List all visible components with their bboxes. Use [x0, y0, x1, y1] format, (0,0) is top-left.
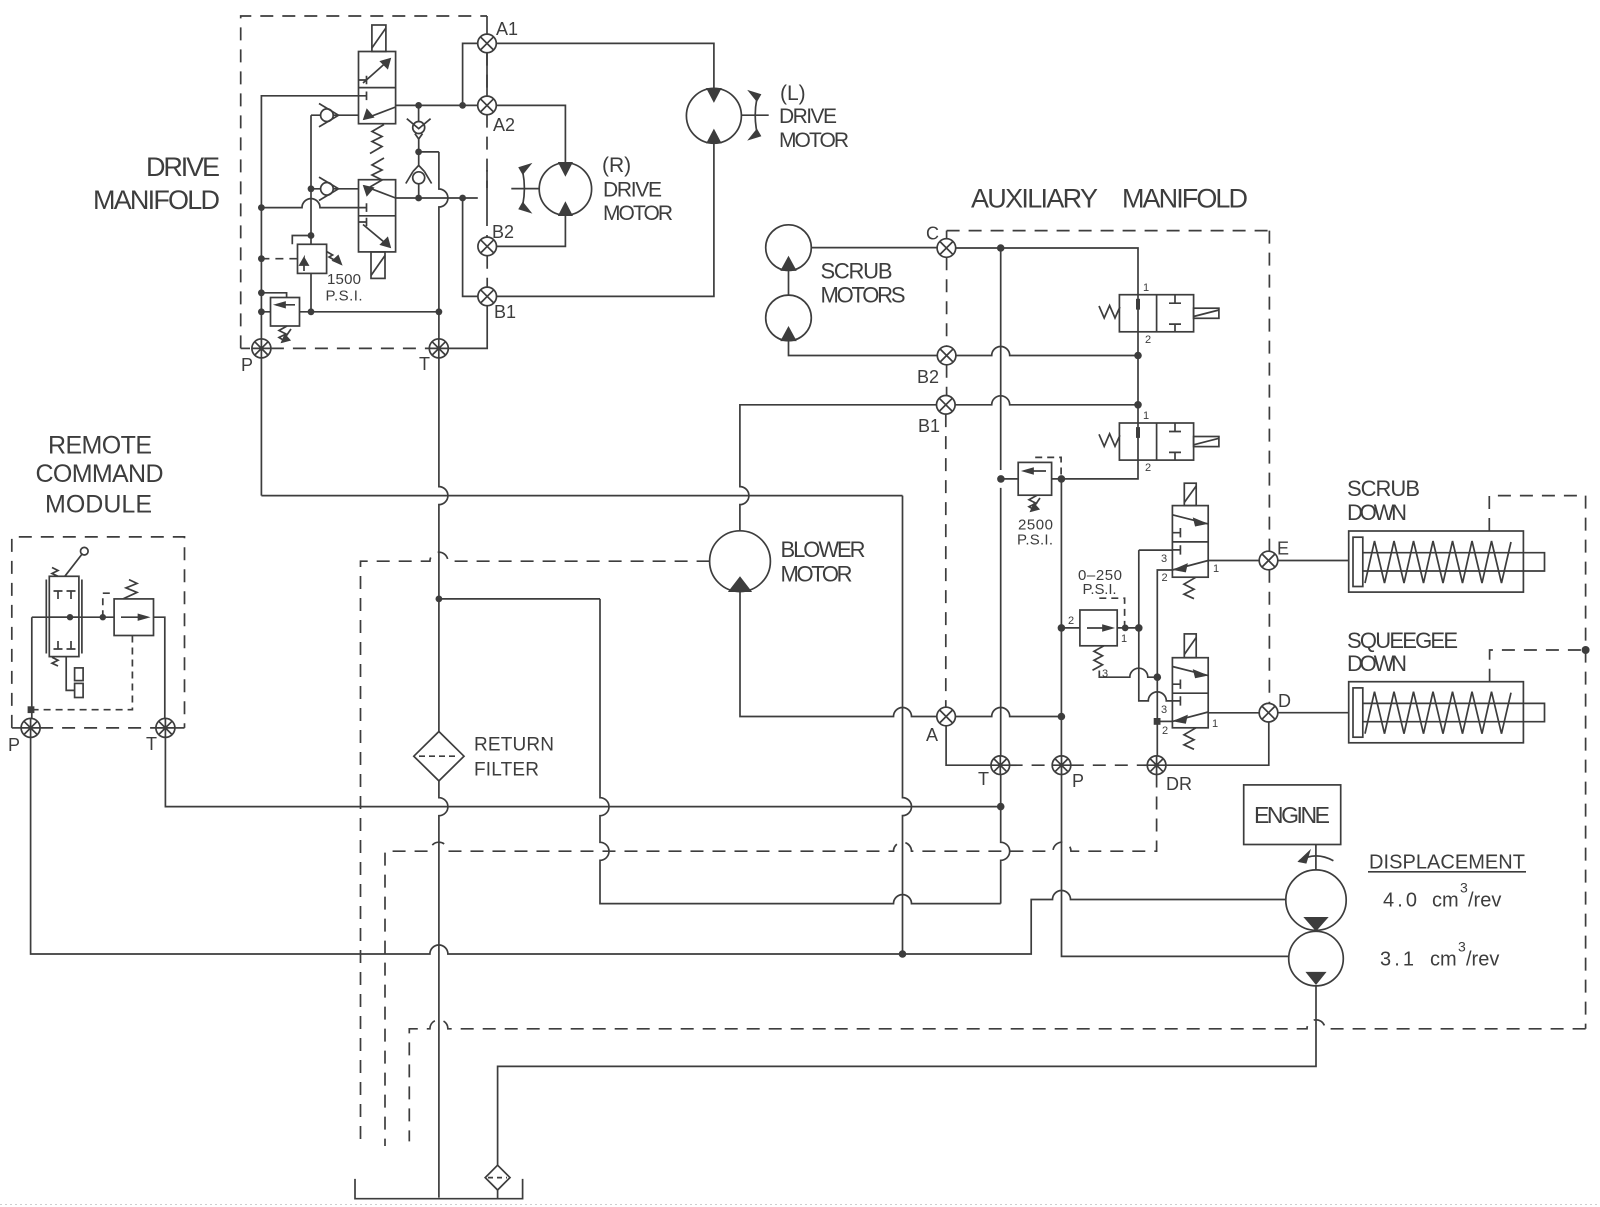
svg-text:MOTOR: MOTOR	[779, 129, 849, 152]
port T aux	[991, 756, 1010, 775]
solenoid tab SV1	[1194, 308, 1219, 318]
remote module dashed enclosure	[12, 537, 185, 728]
relief valve 2500 psi	[1018, 462, 1051, 495]
remote relief pilot dashed	[103, 593, 114, 617]
node B2 port	[478, 170, 497, 256]
wire unloader line	[261, 311, 439, 313]
svg-text:1500: 1500	[327, 271, 361, 288]
svg-text:cm: cm	[1430, 949, 1457, 971]
remote relief vent dashed	[31, 636, 132, 710]
port T drive	[429, 339, 448, 358]
blower motor	[710, 531, 771, 592]
svg-text:1: 1	[1143, 410, 1149, 422]
svg-text:FILTER: FILTER	[474, 760, 539, 781]
svg-text:REMOTE: REMOTE	[48, 432, 152, 460]
solenoid valve SV2 aux (2-way bottom)	[1119, 423, 1193, 460]
wire CV link to T drop	[419, 151, 439, 153]
label 1500 psi	[326, 271, 363, 305]
junction dot CV2 inlet	[308, 185, 315, 192]
wire DR to D corner	[1166, 722, 1269, 765]
junction dot 2500 right	[1058, 475, 1066, 483]
wire B1 to blower	[740, 405, 937, 531]
solenoid tab V2	[371, 252, 385, 279]
wire D valve out to D port	[1208, 712, 1259, 714]
squeegee cylinder vent dashed	[1490, 650, 1586, 682]
drive manifold label	[93, 152, 220, 215]
scrub down cylinder	[1349, 531, 1545, 592]
junction dot B2 at valve gallery	[1134, 352, 1142, 360]
svg-text:3.1: 3.1	[1380, 949, 1414, 971]
port D aux	[1259, 703, 1278, 722]
pilot dashed to relief	[261, 258, 297, 260]
wire aux T drop	[1001, 775, 1010, 904]
junction square dot D drain	[1154, 718, 1161, 725]
scrub motor bottom	[766, 295, 812, 341]
pressure reducing valve 0-250	[1080, 610, 1117, 646]
svg-text:P.S.I.: P.S.I.	[326, 288, 363, 305]
motor L drive	[686, 88, 741, 143]
svg-text:3: 3	[1102, 668, 1108, 680]
dashed vent line bottom	[409, 1020, 1585, 1142]
wire return filter down to tank	[439, 781, 448, 1198]
squeegee down cylinder	[1349, 682, 1545, 743]
node A1 port	[478, 16, 497, 53]
svg-text:AUXILIARY: AUXILIARY	[971, 184, 1098, 214]
svg-text:P: P	[1072, 771, 1084, 791]
svg-text:3: 3	[1161, 553, 1167, 565]
svg-text:DISPLACEMENT: DISPLACEMENT	[1369, 852, 1525, 874]
wire remote T line east	[165, 737, 1000, 806]
svg-text:COMMAND: COMMAND	[36, 460, 164, 488]
solenoid tab SV2	[1194, 437, 1219, 447]
wire x902 drop	[903, 496, 912, 954]
wire E port to scrub cylinder	[1278, 560, 1349, 562]
svg-text:C: C	[926, 224, 939, 244]
wire E port3	[1139, 549, 1173, 551]
wire T-return branch east	[439, 599, 1001, 904]
svg-text:MANIFOLD: MANIFOLD	[93, 185, 220, 215]
svg-text:T: T	[978, 769, 989, 789]
pump 1	[1286, 870, 1346, 930]
engine rotation arrow	[1299, 852, 1333, 863]
svg-text:BLOWER: BLOWER	[781, 537, 866, 562]
motor R drive	[539, 163, 591, 215]
check valve CV4 vertical	[406, 152, 432, 198]
solenoid valve SV1 aux (2-way top)	[1119, 295, 1193, 332]
svg-text:3: 3	[1458, 939, 1466, 955]
svg-text:E: E	[1277, 539, 1289, 559]
drive manifold dashed enclosure	[241, 16, 488, 348]
unloader spring below	[279, 326, 287, 341]
wire B2 to R motor	[497, 215, 566, 246]
scrub motor top	[766, 225, 812, 271]
relief 2500 output	[1001, 478, 1018, 480]
wire P to valve2 left port with hop	[261, 199, 358, 208]
suction strainer diamond	[485, 1165, 510, 1199]
svg-text:A2: A2	[493, 115, 515, 135]
svg-text:2: 2	[1068, 615, 1074, 627]
label 3.1 cm3/rev	[1380, 939, 1499, 971]
svg-text:B1: B1	[494, 302, 516, 322]
junction dots on B line	[415, 195, 466, 202]
svg-text:2: 2	[1145, 334, 1151, 346]
solenoid tab V1	[372, 25, 386, 52]
svg-text:P.S.I.: P.S.I.	[1083, 581, 1117, 598]
wire scrub motors link	[788, 270, 790, 295]
wire pump2 suction	[498, 986, 1316, 1165]
port E aux	[1259, 551, 1278, 570]
port T remote	[156, 718, 175, 737]
auxiliary manifold label	[971, 184, 1248, 214]
svg-text:DOWN: DOWN	[1347, 651, 1407, 676]
wire P riser	[261, 96, 358, 339]
wire scrub bottom to B2	[789, 341, 938, 356]
svg-text:MANIFOLD: MANIFOLD	[1122, 184, 1248, 214]
unloader valve drive	[261, 293, 299, 326]
svg-text:4.0: 4.0	[1383, 890, 1417, 912]
return filter diamond	[414, 732, 464, 781]
junction dots unloader line	[308, 308, 443, 315]
node A2 port	[478, 53, 497, 115]
remote command module label	[36, 432, 164, 519]
wire relief output	[310, 273, 312, 311]
svg-text:2: 2	[1162, 572, 1168, 584]
svg-text:2: 2	[1145, 462, 1151, 474]
svg-text:B1: B1	[918, 416, 940, 436]
label RETURN FILTER	[474, 735, 554, 781]
junction dot reducer output	[1135, 624, 1143, 632]
svg-text:A: A	[926, 725, 938, 745]
port P drive	[252, 339, 271, 358]
svg-text:(L): (L)	[780, 82, 806, 105]
node B1 port	[478, 287, 497, 306]
svg-text:B2: B2	[917, 367, 939, 387]
label SCRUB MOTORS	[821, 259, 906, 308]
port B1 aux	[937, 396, 956, 415]
svg-text:DRIVE: DRIVE	[603, 179, 662, 202]
svg-text:cm: cm	[1432, 890, 1459, 912]
svg-text:SQUEEGEE: SQUEEGEE	[1347, 628, 1458, 653]
svg-text:RETURN: RETURN	[474, 735, 554, 756]
label (R) DRIVE MOTOR	[602, 154, 673, 225]
scrub cylinder vent dashed	[1489, 496, 1585, 531]
pin labels reducer	[1068, 615, 1127, 680]
wire E valve out to E port	[1208, 560, 1259, 562]
spring E valve below	[1184, 577, 1196, 599]
junction dots on gallery	[67, 614, 106, 620]
dashed vent bus right	[1585, 496, 1587, 1029]
spring V2 above	[370, 158, 384, 187]
reducer drain to DR gallery	[1099, 668, 1157, 677]
faint page edge dotted line	[0, 1204, 1600, 1206]
junction dot relief tab	[308, 232, 315, 239]
remote relief valve	[114, 580, 153, 636]
label 0-250 psi	[1078, 567, 1122, 598]
solenoid valve E (3-way)	[1172, 506, 1208, 578]
dashed DR drain line	[385, 775, 1157, 1147]
wire scrub top to C	[811, 247, 937, 249]
dashed blower drain line	[361, 552, 710, 1146]
junction square dot vent	[28, 706, 35, 713]
svg-text:MOTORS: MOTORS	[821, 283, 906, 308]
svg-text:T: T	[419, 354, 430, 374]
joystick drain boxes	[66, 657, 83, 698]
pins E valve	[1161, 553, 1219, 584]
wire A into manifold	[955, 708, 1061, 717]
svg-text:DOWN: DOWN	[1347, 500, 1407, 525]
svg-text:DRIVE: DRIVE	[146, 152, 220, 182]
motor R shaft and rotation arrows	[511, 165, 539, 213]
svg-text:(R): (R)	[602, 154, 631, 177]
wire B2 into manifold	[956, 347, 1138, 356]
svg-text:1: 1	[1143, 282, 1149, 294]
svg-text:P.S.I.: P.S.I.	[1017, 532, 1053, 549]
spring D valve below	[1184, 728, 1196, 750]
svg-text:2: 2	[1162, 725, 1168, 737]
svg-text:DRIVE: DRIVE	[779, 105, 837, 128]
label SQUEEGEE DOWN	[1347, 628, 1458, 676]
wire D valve drain port2	[1157, 720, 1172, 722]
svg-text:3: 3	[1460, 880, 1468, 896]
wire D port to squeegee cylinder	[1278, 712, 1349, 714]
svg-text:DR: DR	[1166, 774, 1192, 794]
engine shaft	[1315, 845, 1317, 870]
tank	[355, 1179, 523, 1199]
junction dot remote P at x902	[899, 950, 907, 958]
wire reducer output	[1117, 627, 1139, 629]
wire E valve drain	[1157, 570, 1172, 677]
svg-text:3: 3	[1161, 704, 1167, 716]
wire reducer input	[1061, 627, 1080, 629]
wire C into manifold	[956, 248, 1138, 295]
wire A1 branch	[463, 43, 478, 105]
svg-text:1: 1	[1213, 563, 1219, 575]
pins D valve	[1161, 704, 1218, 737]
wire B1 branch	[463, 198, 478, 296]
wire return T-drive down to filter	[439, 358, 448, 732]
svg-text:ENGINE: ENGINE	[1254, 802, 1330, 828]
wire regulated gallery E3-D3	[1139, 550, 1173, 701]
svg-text:1: 1	[1121, 633, 1127, 645]
spring SV2	[1099, 434, 1120, 447]
svg-text:P: P	[8, 735, 20, 755]
svg-text:SCRUB: SCRUB	[1347, 476, 1420, 501]
junction dot A at P gallery	[1058, 713, 1066, 721]
wire A2 to R motor	[496, 105, 565, 162]
solenoid valve V1 drive (top)	[359, 52, 396, 124]
junction dot reducer input	[1058, 624, 1066, 632]
label (L) DRIVE MOTOR	[779, 82, 849, 152]
svg-text:MOTOR: MOTOR	[781, 562, 853, 587]
solenoid tab D valve	[1184, 634, 1196, 658]
wire gallery to P riser	[31, 617, 33, 718]
wire remote P line east	[31, 737, 1286, 954]
pins SV2	[1143, 410, 1151, 474]
spring V1 below	[370, 125, 384, 154]
svg-text:SCRUB: SCRUB	[821, 259, 893, 284]
wire blower to A	[740, 592, 937, 717]
wire valve2 output to B lines	[396, 197, 478, 199]
svg-text:P: P	[241, 355, 253, 375]
port A aux	[937, 707, 956, 726]
wire B1 to L motor	[497, 143, 714, 296]
wire relief out to T riser	[154, 617, 165, 718]
motor L shaft and rotation arrows	[741, 92, 768, 140]
wire CV riser left	[310, 115, 312, 244]
engine box	[1244, 785, 1341, 845]
relief 2500 spring arrow	[1029, 495, 1040, 511]
junction dot return at 598.9	[436, 596, 443, 603]
wire valve1 output to A2	[396, 104, 478, 106]
svg-text:D: D	[1278, 691, 1291, 711]
junction dot CV link	[415, 149, 422, 156]
wire aux long vertical T gallery	[1000, 248, 1002, 756]
solenoid valve V2 drive (bottom)	[359, 180, 396, 252]
junction dot relief out	[997, 475, 1005, 483]
label SCRUB DOWN	[1347, 476, 1420, 525]
svg-text:MODULE: MODULE	[45, 491, 152, 519]
svg-text:MOTOR: MOTOR	[603, 202, 673, 225]
check valve CV3 vertical	[407, 105, 431, 151]
remote module main gallery	[32, 616, 114, 618]
junction dot aux-T remote-T	[997, 803, 1005, 811]
port P aux	[1052, 756, 1071, 775]
wire T port drop into manifold	[438, 312, 440, 339]
junction dots on A2 line	[415, 102, 466, 109]
label BLOWER MOTOR	[781, 537, 866, 587]
wire valve gallery between SV1 SV2	[1137, 332, 1139, 423]
wire B1 into manifold	[955, 396, 1138, 405]
wire A to T external	[946, 726, 991, 765]
reducer pilot dashed	[1099, 598, 1124, 628]
svg-text:/rev: /rev	[1468, 890, 1501, 912]
svg-text:1: 1	[1212, 718, 1218, 730]
port P remote	[21, 718, 40, 737]
wire pressure cross line P-drive to east	[261, 495, 902, 497]
junction dots on P riser	[258, 204, 265, 315]
spring SV1	[1099, 306, 1120, 319]
joystick pilot valve	[46, 576, 82, 656]
solenoid valve D (3-way)	[1172, 658, 1208, 728]
svg-text:/rev: /rev	[1466, 949, 1499, 971]
wire B1 to T inside manifold	[448, 306, 487, 349]
pump 2	[1289, 931, 1344, 986]
relief valve 1500 psi	[292, 236, 341, 274]
aux manifold dashed enclosure	[946, 231, 1270, 766]
wire SV2 to relief 2500	[1052, 460, 1138, 479]
label 2500 psi	[1017, 517, 1053, 549]
wire P drive down to cross line	[260, 358, 262, 496]
label DISPLACEMENT underlined	[1369, 852, 1525, 874]
junction dot reducer pilot	[1122, 625, 1129, 632]
pins SV1	[1143, 282, 1151, 346]
wire P aux gallery	[1061, 479, 1288, 957]
junction dot vent bus	[1582, 646, 1590, 654]
wire drain gallery to DR	[1156, 677, 1158, 756]
reducer spring below	[1093, 646, 1105, 671]
junction dot drain gallery	[1154, 673, 1162, 681]
label 4.0 cm3/rev	[1383, 880, 1501, 912]
port DR aux	[1147, 756, 1166, 775]
junction dot B1 at valve gallery	[1134, 401, 1142, 409]
port B2 aux	[937, 346, 956, 365]
relief 2500 pilot dashed	[1035, 457, 1061, 479]
svg-text:T: T	[146, 734, 157, 754]
check valve CV2	[311, 177, 359, 200]
svg-text:A1: A1	[496, 19, 518, 39]
wire A1 to L motor	[496, 43, 714, 88]
wire T drop with hop over B line	[439, 152, 448, 312]
solenoid tab E valve	[1184, 483, 1196, 505]
joystick lever	[52, 547, 88, 666]
port C aux	[937, 239, 956, 258]
check valve CV1	[311, 104, 359, 127]
junction dot C line	[997, 244, 1005, 252]
svg-text:B2: B2	[492, 222, 514, 242]
